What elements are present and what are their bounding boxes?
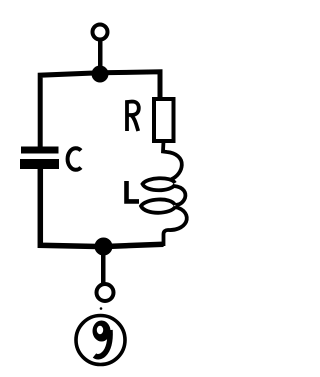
node A (top junction dot) [92,66,109,83]
wire capacitor to bottom rail [40,167,163,247]
inductor L1 coil [141,141,187,246]
label R [127,102,139,132]
terminal T1 (top) [93,25,108,40]
wire bottom junction to terminal T2 [101,252,106,283]
resistor R1 [154,99,174,141]
speck [100,307,103,310]
terminal T2 (bottom) [97,284,114,301]
wire T1 to top junction [98,40,103,68]
capacitor C1 top plate [21,147,59,154]
capacitor C1 bottom plate [20,159,59,169]
figure number 9 tail [95,330,111,357]
label C [68,148,81,170]
label L [127,181,140,201]
figure number 9 bowl [93,321,111,342]
figure number circle [76,316,125,365]
node B (bottom junction dot) [95,238,113,256]
wire top rail and left branch down to capacitor [40,72,160,147]
